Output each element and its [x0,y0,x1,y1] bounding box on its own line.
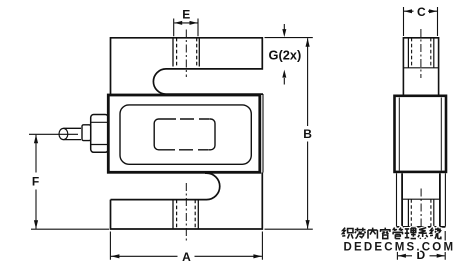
bottom arm outline with lower slot [111,173,220,200]
G reference extension line (top surface) [265,37,313,39]
watermark line 1: 织梦内容管理系统 (white halo) [342,228,441,239]
svg-text:F: F [32,174,39,188]
top hole centerline [185,30,187,78]
side view bottom section outer edges [397,173,446,226]
cable gland body [82,125,91,141]
bottom hole centerline [185,183,187,241]
side bottom thread dashed lines [411,199,431,227]
top threaded hole solid lines [172,38,174,67]
dimension E line [174,22,197,24]
bottom threaded hole dashed lines [176,200,178,229]
top threaded hole dashed lines [176,38,178,67]
side bottom centerline [420,189,422,239]
D dimension line [398,255,445,257]
cover plate thick rectangle [108,95,259,172]
C dimension line [404,10,437,12]
side top thread dashed lines [412,38,431,68]
side bottom thread solid lines [408,199,433,227]
cable stub [63,128,81,139]
outer rounded recess [120,105,251,164]
cable end ellipse [59,128,68,139]
watermark line 1 ink strokes [342,228,441,239]
dimension E extension lines [174,19,198,37]
side bottom internal line [402,198,440,200]
B dimension line [307,38,309,228]
body right edge behind cover plate [262,94,264,173]
side bottom edge [397,226,446,228]
side plate inner body edges [399,98,441,171]
svg-text:C: C [417,5,426,19]
G down arrow [283,24,285,31]
svg-text:B: B [303,127,312,141]
side view middle plate [395,96,447,172]
G up arrow [283,78,285,85]
D extension lines [397,231,445,260]
inner rounded pocket (solid part) [154,119,215,150]
C extension lines [404,7,438,36]
hex nut facet lines [91,121,109,123]
side top centerline [420,29,422,78]
side view top boss [403,38,438,95]
pocket dashed bottom edge [179,149,208,151]
svg-text:DEDECMS.COM: DEDECMS.COM [344,242,453,254]
A dimension line [111,255,262,257]
A extension lines [110,232,262,260]
pocket hidden-line gaps [176,117,210,121]
side bottom boss edges [402,173,440,227]
svg-text:A: A [182,250,191,264]
F bottom extension line [31,228,109,230]
svg-text:G(2x): G(2x) [269,47,302,62]
F top extension line (connector centerline) [29,133,78,135]
F dimension line [35,135,37,229]
side top thread solid lines [408,38,433,68]
pocket dashed top edge [180,118,209,120]
load cell front view: top arm outline with upper slot [111,38,264,94]
bottom threaded hole solid lines [172,200,174,229]
svg-text:E: E [182,8,190,22]
B bottom extension line [265,228,313,230]
side top thread depth line [403,67,438,69]
connector hex nut [91,115,109,153]
